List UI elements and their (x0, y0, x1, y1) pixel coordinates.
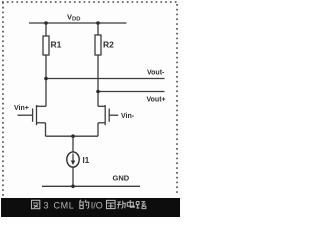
node dot VDD/R2 (96, 21, 100, 25)
transistor M2 (right NMOS, gate Vin-) (98, 105, 118, 136)
svg-text:GND: GND (113, 174, 130, 183)
node dot I1/GND (71, 185, 75, 189)
svg-text:Vout-: Vout- (147, 70, 165, 77)
hanzi 路 (136, 202, 146, 209)
net VDD rail wire (29, 22, 127, 24)
svg-text:R1: R1 (51, 40, 62, 50)
svg-text:CML: CML (54, 201, 75, 211)
svg-text:Vin+: Vin+ (14, 105, 29, 112)
svg-text:I1: I1 (83, 156, 90, 165)
current source I1 (67, 136, 90, 186)
wire tail node (sources to I1) (46, 135, 99, 137)
hanzi 的 (80, 200, 89, 209)
hanzi 电 (127, 200, 134, 207)
svg-text:VDD: VDD (67, 13, 80, 23)
net GND rail wire (42, 185, 140, 187)
svg-text:3: 3 (44, 201, 49, 211)
caption text: 图3 CML 的 I/O 驱动电路 (32, 200, 146, 211)
hanzi 驱 (107, 200, 116, 208)
svg-text:Vout+: Vout+ (147, 97, 166, 104)
node dot Vout+ junction (96, 90, 100, 94)
wire Vout+ output line (98, 91, 165, 93)
caption bar (1, 198, 180, 217)
wire R2 bottom to M2 drain (node Vout+) (97, 55, 99, 106)
svg-text:Vin-: Vin- (121, 113, 135, 120)
resistor R2 (95, 35, 114, 55)
node dot tail/I1 (71, 134, 75, 138)
transistor M1 (left NMOS, gate Vin+) (18, 105, 47, 136)
resistor R1 (43, 36, 62, 55)
wire VDD to R1 top (45, 23, 47, 36)
node dot Vout- junction (44, 77, 48, 81)
node dot VDD/R1 (44, 21, 48, 25)
hanzi 动 (117, 201, 125, 209)
wire R1 bottom to M1 drain (node Vout-) (45, 55, 47, 106)
wire VDD to R2 top (97, 23, 99, 35)
hanzi 图 (32, 200, 40, 208)
svg-text:R2: R2 (103, 40, 114, 50)
wire Vout- output line (46, 78, 165, 80)
svg-text:I/O: I/O (91, 201, 103, 211)
